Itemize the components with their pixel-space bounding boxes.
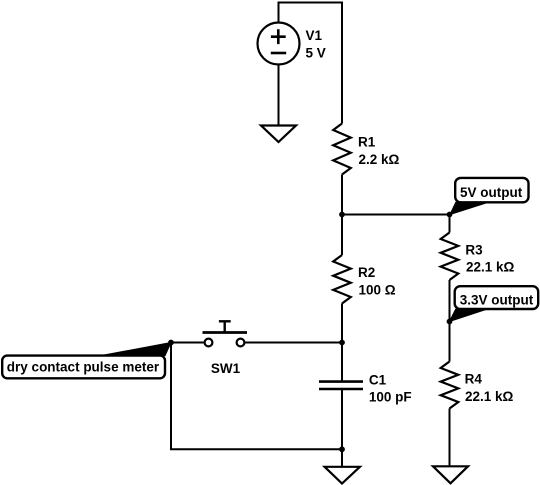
- wire node to R3: [449, 215, 451, 233]
- wire switch left terminal to node: [171, 342, 205, 344]
- node: [339, 212, 345, 218]
- node 5V output: [447, 212, 453, 218]
- wire R3 to node: [449, 280, 451, 322]
- resistor R3: [441, 233, 515, 281]
- resistor R4: [441, 362, 514, 409]
- wire V1 bottom to ground: [278, 65, 280, 126]
- capacitor C1: [319, 373, 412, 405]
- svg-text:SW1: SW1: [211, 361, 241, 376]
- resistor R1: [333, 124, 399, 175]
- svg-text:22.1 kΩ: 22.1 kΩ: [465, 389, 514, 404]
- wire V1 top to R1 top: [279, 3, 343, 124]
- svg-text:3.3V output: 3.3V output: [460, 293, 534, 308]
- svg-text:R1: R1: [358, 135, 376, 150]
- svg-text:100 Ω: 100 Ω: [359, 283, 396, 298]
- ground: [261, 126, 296, 143]
- svg-text:5V output: 5V output: [460, 185, 523, 200]
- svg-text:2.2 kΩ: 2.2 kΩ: [359, 152, 400, 167]
- wire R2 to node: [341, 304, 343, 343]
- switch SW1: [203, 321, 248, 376]
- wire R1 to node: [341, 175, 343, 215]
- wire node to 5V output node: [342, 214, 450, 216]
- wire capacitor bottom to bottom node: [341, 389, 343, 449]
- resistor R2: [333, 255, 396, 304]
- wire node down and right to bottom node: [171, 343, 342, 450]
- ground: [433, 466, 468, 483]
- voltage source V1: [258, 23, 326, 65]
- svg-text:dry contact pulse meter: dry contact pulse meter: [7, 360, 160, 375]
- node bottom: [339, 446, 345, 452]
- svg-text:5 V: 5 V: [306, 46, 326, 61]
- svg-text:R2: R2: [358, 265, 375, 280]
- node dry contact: [168, 340, 174, 346]
- svg-text:R4: R4: [465, 371, 483, 386]
- svg-text:R3: R3: [465, 242, 483, 257]
- wire node to R2: [341, 215, 343, 256]
- svg-text:C1: C1: [369, 373, 387, 388]
- ground: [325, 467, 360, 484]
- wire bottom node to ground: [341, 449, 343, 467]
- wire node to switch right terminal: [245, 342, 343, 344]
- node SW/C1: [339, 340, 345, 346]
- callout 3.3V output: [450, 286, 539, 321]
- svg-text:22.1 kΩ: 22.1 kΩ: [466, 259, 515, 274]
- wire node to R4: [449, 322, 451, 362]
- wire node to capacitor top: [341, 343, 343, 382]
- svg-text:V1: V1: [306, 28, 323, 43]
- wire R4 to ground: [449, 409, 451, 467]
- callout dry contact pulse meter: [2, 343, 171, 379]
- node 3.3V output: [447, 319, 453, 325]
- svg-text:100 pF: 100 pF: [369, 390, 412, 405]
- callout 5V output: [450, 178, 529, 215]
